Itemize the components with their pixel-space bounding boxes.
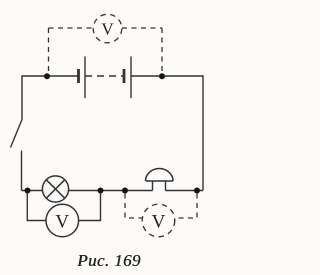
battery cell G2 long plate xyxy=(130,57,132,99)
node top left xyxy=(44,73,50,79)
battery cell G1 short plate xyxy=(77,69,80,83)
voltmeter PV3 dashed circle xyxy=(142,204,175,237)
node bottom C xyxy=(122,188,128,194)
bell HA dome xyxy=(146,169,174,182)
battery cell G2 short plate xyxy=(123,69,126,83)
wire dashed voltmeter PV1 right horizontal xyxy=(122,27,162,29)
switch S blade xyxy=(11,120,23,148)
svg-text:V: V xyxy=(55,212,69,233)
bell HA right leg xyxy=(165,181,167,191)
bell HA left leg xyxy=(152,181,154,191)
wire top left segment xyxy=(22,75,79,77)
wire bottom right segment xyxy=(166,190,204,192)
node bottom A xyxy=(25,188,31,194)
node bottom D xyxy=(194,188,200,194)
svg-text:V: V xyxy=(152,212,166,233)
lamp HL circle xyxy=(42,176,68,202)
voltmeter PV2 circle xyxy=(46,204,79,237)
bell HA base xyxy=(146,180,174,182)
battery cell G1 long plate xyxy=(84,57,86,99)
wire top right segment xyxy=(131,75,203,77)
wire voltmeter PV2 right branch xyxy=(79,191,101,221)
wire bottom left segment xyxy=(22,190,43,192)
wire dashed voltmeter PV1 right vertical xyxy=(161,28,163,74)
wire dashed voltmeter PV1 left horizontal xyxy=(49,27,94,29)
wire voltmeter PV2 left branch xyxy=(27,191,46,221)
wire bottom middle segment xyxy=(68,190,152,192)
wire dashed voltmeter PV1 left vertical xyxy=(48,28,50,74)
wire dashed voltmeter PV3 right branch xyxy=(175,194,197,219)
node top right xyxy=(159,73,165,79)
wire dashed voltmeter PV3 left branch xyxy=(125,194,143,219)
node bottom B xyxy=(98,188,104,194)
caption Puc. 169 xyxy=(0,251,213,271)
voltmeter PV1 dashed circle xyxy=(93,14,122,43)
svg-text:V: V xyxy=(101,20,114,39)
wire left edge upper xyxy=(21,75,23,119)
lamp HL cross xyxy=(46,180,65,199)
wire left edge lower xyxy=(21,151,23,191)
wire right edge xyxy=(202,75,204,190)
wire dashed between battery cells xyxy=(85,75,124,77)
